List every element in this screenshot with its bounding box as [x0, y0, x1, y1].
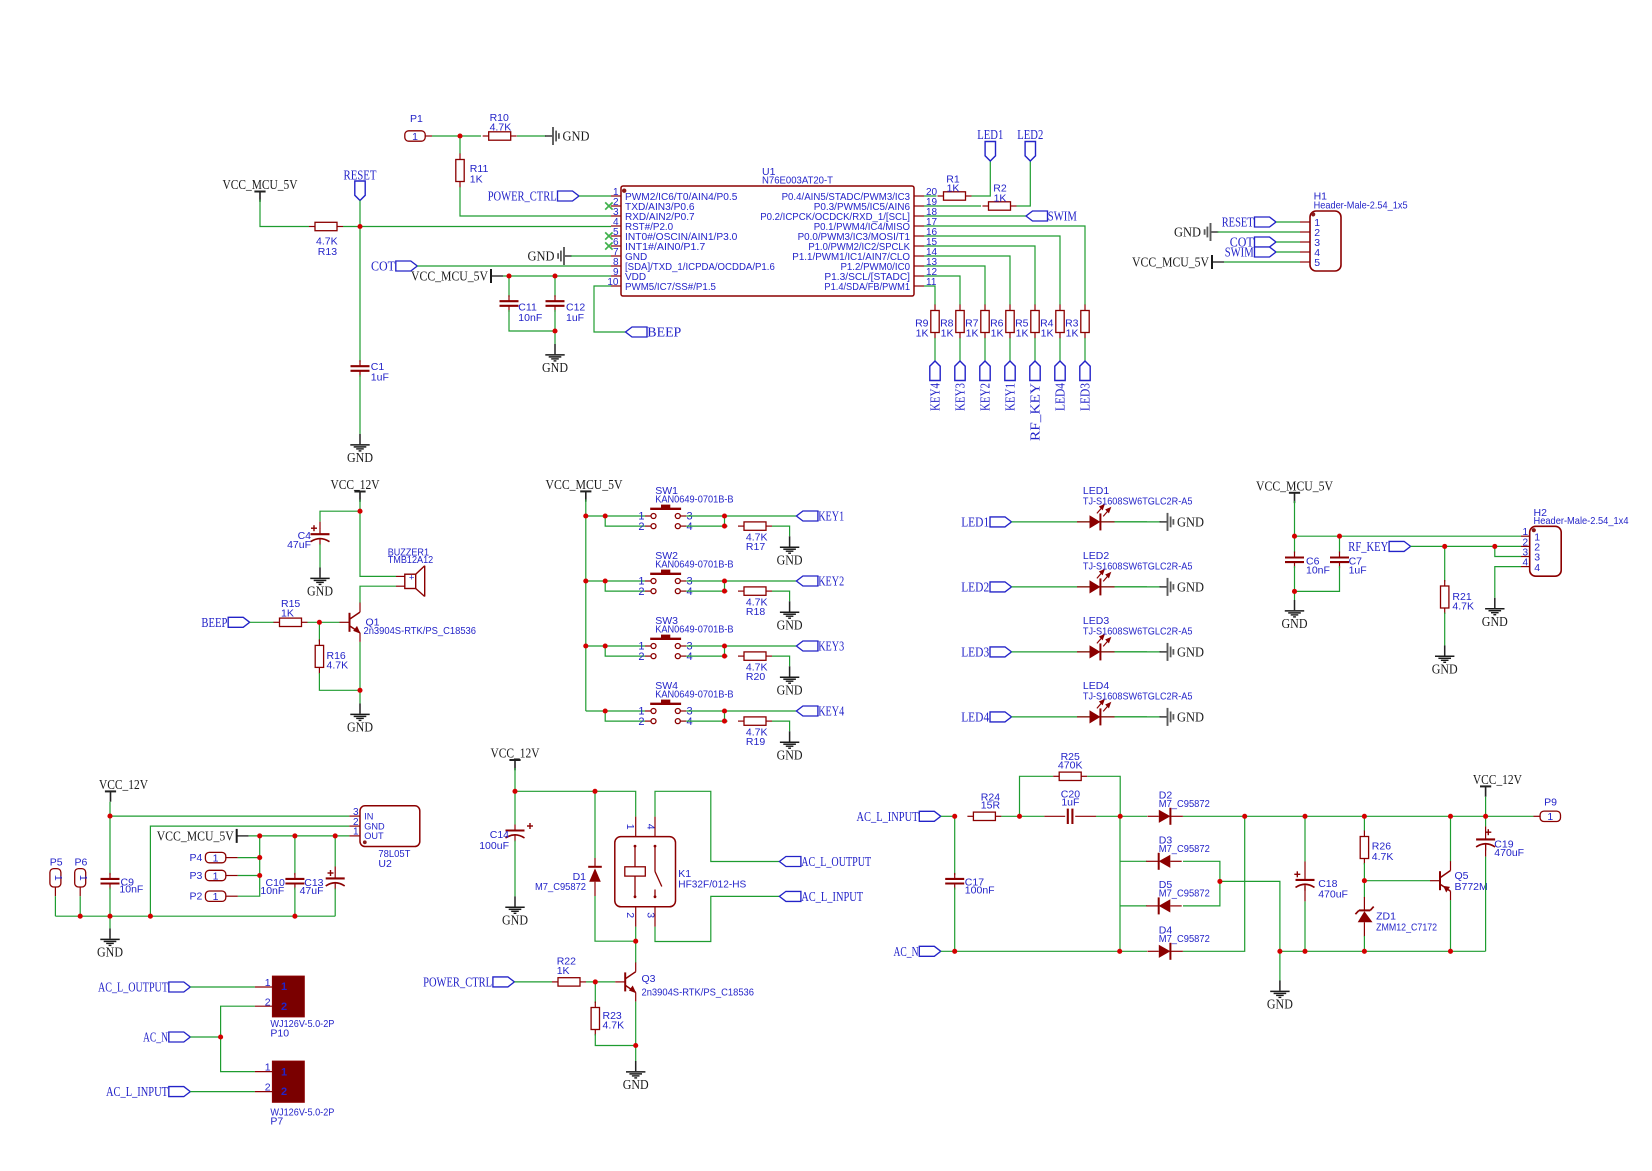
- svg-text:P5: P5: [50, 857, 63, 869]
- wire dropper node vertical: [1119, 816, 1121, 951]
- svg-text:AC_L_INPUT: AC_L_INPUT: [857, 810, 919, 825]
- svg-text:GND: GND: [1177, 516, 1204, 531]
- svg-text:GND: GND: [1177, 581, 1204, 596]
- svg-text:LED3: LED3: [1079, 383, 1094, 411]
- wire VCC_12V flag lead: [1485, 797, 1487, 817]
- wire C1 to GND: [359, 375, 361, 434]
- wire R21 to GND: [1444, 613, 1446, 646]
- wire to C11: [508, 276, 510, 297]
- svg-text:1: 1: [1547, 811, 1553, 823]
- net VCC_MCU_5V flag (H2): [1289, 493, 1300, 503]
- svg-text:GND: GND: [542, 361, 568, 376]
- svg-text:1: 1: [77, 875, 89, 881]
- svg-text:GND: GND: [1174, 226, 1201, 241]
- junction SW1 pin4: [722, 524, 727, 529]
- svg-text:KAN0649-0701B-B: KAN0649-0701B-B: [655, 688, 733, 700]
- svg-text:KEY3: KEY3: [954, 383, 969, 411]
- svg-text:1K: 1K: [1066, 328, 1079, 340]
- wire C7 bottom: [1295, 566, 1340, 591]
- wire C12 bottom: [554, 310, 556, 331]
- svg-text:1: 1: [52, 875, 64, 881]
- wire D4 cathode to +12V: [1183, 816, 1245, 951]
- wire anodes to GND row: [1220, 881, 1280, 951]
- wire to ZD1: [1363, 881, 1365, 898]
- U1 pin 3 (RXD/AIN2/P0.7): [611, 215, 621, 217]
- port AC_L_INPUT (supply): [919, 811, 941, 821]
- wire C14 to GND: [514, 841, 516, 897]
- U2 pin1 marker: [363, 840, 367, 844]
- junction SW1 pin2 branch: [603, 513, 608, 518]
- wire to GND: [554, 331, 556, 344]
- wire R18 to GND: [772, 591, 790, 601]
- svg-text:4.7K: 4.7K: [1372, 851, 1394, 863]
- wire pin19 to R2: [924, 205, 981, 207]
- svg-text:P10: P10: [270, 1027, 289, 1039]
- svg-text:AC_L_INPUT: AC_L_INPUT: [801, 890, 863, 905]
- port LED4: [990, 712, 1012, 722]
- header H2 body: [1530, 526, 1562, 576]
- svg-text:1: 1: [213, 870, 219, 882]
- wire AC_L_OUTPUT to P10.1: [190, 986, 255, 988]
- svg-text:KEY4: KEY4: [818, 705, 844, 720]
- ground below rail: [100, 929, 119, 946]
- svg-text:4: 4: [687, 586, 693, 598]
- svg-text:VCC_12V: VCC_12V: [99, 778, 148, 793]
- junction Q5 collector: [1448, 814, 1453, 819]
- svg-text:LED2: LED2: [961, 581, 989, 596]
- junction C18 top: [1302, 814, 1307, 819]
- wire Q1 emitter to GND: [359, 642, 361, 704]
- svg-text:4.7K: 4.7K: [327, 659, 349, 671]
- junction Q3 emitter/R23: [633, 1043, 638, 1048]
- svg-text:VCC_12V: VCC_12V: [491, 747, 540, 762]
- svg-text:1: 1: [213, 852, 219, 864]
- resistor R6 1K: [1006, 305, 1014, 339]
- svg-text:P4: P4: [190, 852, 203, 864]
- wire to SW1 pin1: [586, 515, 645, 517]
- H1 pin 2: [1300, 231, 1310, 233]
- wire R7 to port: [984, 338, 986, 361]
- capacitor C14 100uF (polarized): [506, 823, 534, 842]
- svg-text:R18: R18: [746, 606, 765, 618]
- wire R13 to U1 pin4 (RST): [343, 226, 611, 228]
- wire P6 to rail: [79, 896, 81, 916]
- U1 pin 15 (P1.0/PWM2/IC2/SPCLK): [914, 245, 924, 247]
- wire C18 bottom: [1304, 901, 1306, 951]
- port AC_L_OUTPUT flag: [169, 982, 191, 992]
- svg-text:KAN0649-0701B-B: KAN0649-0701B-B: [655, 493, 733, 505]
- wire to C13: [334, 836, 336, 867]
- wire to C4: [320, 511, 360, 522]
- relay K1 contact: [655, 846, 662, 897]
- port BEEP (top): [626, 327, 648, 337]
- svg-text:TJ-S1608SW6TGLC2R-A5: TJ-S1608SW6TGLC2R-A5: [1083, 561, 1193, 573]
- svg-text:AC_L_INPUT: AC_L_INPUT: [106, 1085, 168, 1100]
- transistor Q5 B772M (PNP): [1430, 861, 1451, 900]
- wire R4 to port: [1059, 338, 1061, 361]
- svg-text:BEEP: BEEP: [201, 616, 227, 631]
- svg-text:P3: P3: [190, 870, 203, 882]
- wire SW4 pins 3-4 link: [724, 711, 726, 721]
- junction H2 pin3 branch: [1492, 544, 1497, 549]
- port KEY3 (column): [955, 361, 965, 381]
- ground (bars) at H1.2: [1205, 223, 1219, 241]
- svg-text:+: +: [409, 573, 415, 584]
- svg-text:R17: R17: [746, 541, 765, 553]
- wire U1 pin12 to R8: [924, 276, 960, 305]
- junction R25 left: [1017, 814, 1022, 819]
- junction R22/R23: [593, 979, 598, 984]
- wire to C19: [1485, 816, 1487, 826]
- port LED2: [990, 582, 1012, 592]
- wire rail to GND: [109, 916, 111, 928]
- capacitor C13 47uF (polarized): [326, 870, 345, 889]
- wire SW3 pins 3-4 link: [724, 646, 726, 656]
- wire SW1 pin4: [686, 525, 727, 527]
- wire U1 pin16 to R4: [924, 236, 1060, 305]
- junction D1 top: [592, 789, 597, 794]
- net VCC_12V flag (regulator): [105, 791, 116, 801]
- svg-text:KAN0649-0701B-B: KAN0649-0701B-B: [655, 623, 733, 635]
- resistor R18 4.7K: [738, 587, 772, 595]
- svg-text:2: 2: [624, 912, 636, 918]
- port KEY1 (column): [1005, 361, 1015, 381]
- wire VCC_12V down: [359, 500, 361, 512]
- svg-text:GND: GND: [307, 585, 333, 600]
- junction VCC_12V out: [1483, 814, 1488, 819]
- H1 pin 1: [1300, 221, 1310, 223]
- net VCC_12V flag (supply out): [1480, 786, 1491, 796]
- wire R22 to Q3 base: [586, 981, 615, 983]
- port KEY4: [796, 706, 818, 716]
- svg-text:1K: 1K: [470, 173, 483, 185]
- svg-text:1: 1: [624, 824, 636, 830]
- ground below C14: [505, 896, 524, 913]
- svg-text:GND: GND: [97, 946, 123, 961]
- ground (bars) LED3: [1160, 643, 1174, 661]
- junction P4: [257, 855, 262, 860]
- wire VCC down (reg): [109, 802, 111, 816]
- capacitor C10 10nF: [285, 873, 304, 890]
- wire RF_KEY to H2 pin2: [1411, 545, 1521, 547]
- svg-text:R19: R19: [746, 736, 765, 748]
- svg-text:4: 4: [687, 716, 693, 728]
- port LED1 (top): [985, 142, 995, 162]
- wire to R26: [1363, 816, 1365, 831]
- junction SW3 pin3: [722, 643, 727, 648]
- resistor R3 1K: [1081, 305, 1089, 339]
- pin P4: [205, 852, 225, 862]
- wire POWER_CTRL to R22: [514, 981, 552, 983]
- capacitor C17 100nF: [945, 873, 964, 890]
- wire VCC_MCU_5V to U2 OUT: [249, 835, 350, 837]
- junction relay pin2/D1/Q3: [633, 939, 638, 944]
- wire to C18: [1304, 816, 1306, 861]
- wire C10 bottom: [294, 888, 296, 917]
- svg-text:4: 4: [687, 651, 693, 663]
- junction SW2 pin3: [722, 578, 727, 583]
- no-connect X mark: [605, 242, 612, 249]
- svg-text:10nF: 10nF: [119, 884, 143, 896]
- net VCC_12V flag (buzzer): [354, 492, 365, 502]
- svg-text:1K: 1K: [281, 607, 294, 619]
- wire node to D3: [1120, 860, 1147, 862]
- svg-text:GND: GND: [777, 749, 803, 764]
- ground (bars) LED1: [1160, 513, 1174, 531]
- U1 pin 4 (RST#/P2.0): [611, 225, 621, 227]
- svg-text:GND: GND: [777, 619, 803, 634]
- port KEY2: [796, 576, 818, 586]
- wire to C14: [514, 791, 516, 824]
- net VCC_MCU_5V at U1 pin9: [491, 269, 503, 283]
- svg-text:IN: IN: [364, 811, 373, 821]
- wire Q5 collector: [1450, 816, 1452, 861]
- U1 pin 20 (P0.4/AIN5/STADC/PWM3/IC3): [914, 195, 924, 197]
- wire SW1 pins 3-4 link: [724, 516, 726, 526]
- svg-text:GND: GND: [1267, 998, 1293, 1013]
- wire C20 to D2: [1096, 815, 1147, 817]
- U1 pin 10 (PWM5/IC7/SS#/P1.5): [611, 285, 621, 287]
- svg-text:10: 10: [607, 277, 619, 288]
- svg-text:AC_N: AC_N: [143, 1031, 168, 1046]
- wire SW3 pin3 to KEY3: [686, 645, 796, 647]
- port KEY1: [796, 511, 818, 521]
- ground below C12: [545, 344, 564, 361]
- svg-text:GND: GND: [1177, 711, 1204, 726]
- wire P3: [238, 875, 260, 877]
- junction C18 bottom: [1302, 949, 1307, 954]
- wire to C12: [554, 276, 556, 297]
- wire R25 to node: [1087, 776, 1120, 816]
- resistor R16: [315, 639, 323, 673]
- capacitor C6 10nF: [1285, 552, 1304, 569]
- wire LED1 to diode: [1012, 521, 1148, 523]
- wire R26 bottom: [1363, 863, 1365, 881]
- svg-text:TJ-S1608SW6TGLC2R-A5: TJ-S1608SW6TGLC2R-A5: [1083, 691, 1193, 703]
- svg-text:KEY1: KEY1: [1004, 383, 1019, 411]
- port AC_L_INPUT (relay): [779, 891, 801, 901]
- svg-text:RF_KEY: RF_KEY: [1348, 540, 1388, 555]
- ground (bars) at U1 pin7: [558, 247, 572, 265]
- wire to H2 pin1: [1295, 535, 1522, 537]
- diode D5 M7_C95872: [1146, 897, 1182, 914]
- svg-text:KEY2: KEY2: [979, 383, 994, 411]
- svg-text:Header-Male-2.54_1x5: Header-Male-2.54_1x5: [1314, 200, 1408, 212]
- svg-text:OUT: OUT: [364, 831, 384, 841]
- U1 pin 16 (P0.0/PWM3/IC3/MOSI/T1): [914, 235, 924, 237]
- wire relay pin3 to AC_L_INPUT: [655, 896, 779, 941]
- wire relay pin4 to AC_L_OUTPUT: [655, 791, 779, 861]
- wire COT to U1 pin8: [417, 265, 611, 267]
- svg-text:TJ-S1608SW6TGLC2R-A5: TJ-S1608SW6TGLC2R-A5: [1083, 496, 1193, 508]
- junction C6/C7 gnd: [1292, 589, 1297, 594]
- wire U1 pin17 to R3: [924, 226, 1085, 305]
- regulator U2 78L05T body: [360, 806, 420, 847]
- junction trunk SW2: [583, 578, 588, 583]
- wire AC_N: [190, 1036, 220, 1038]
- svg-text:GND: GND: [1282, 617, 1308, 632]
- wire AC_L_INPUT to P7.2: [190, 1091, 255, 1093]
- capacitor C4 47uF (polarized): [311, 525, 330, 545]
- junction C17 bottom: [952, 949, 957, 954]
- svg-text:100uF: 100uF: [479, 840, 509, 852]
- U1 pin 12 (P1.3/SCL/[STADC]): [914, 275, 924, 277]
- ground below C6/C7: [1285, 600, 1304, 617]
- wire R15 to Q1 base: [308, 621, 340, 623]
- capacitor C18 470uF (polarized): [1294, 871, 1314, 891]
- capacitor C9 10nF: [101, 873, 120, 890]
- svg-text:470uF: 470uF: [1494, 847, 1524, 859]
- resistor R10: [483, 132, 517, 140]
- svg-text:1K: 1K: [966, 328, 979, 340]
- port POWER_CTRL: [558, 191, 580, 201]
- ground (bars) LED4: [1160, 708, 1174, 726]
- switch SW3 KAN0649-0701B-B: [650, 635, 681, 659]
- wire to C17: [954, 816, 956, 875]
- svg-text:GND: GND: [1432, 663, 1458, 678]
- resistor R22: [552, 978, 586, 986]
- no-connect X mark: [605, 232, 612, 239]
- wire U1 pin15 to R5: [924, 246, 1035, 305]
- junction C10/rail: [292, 914, 297, 919]
- junction ZD1 bottom: [1362, 949, 1367, 954]
- svg-text:10nF: 10nF: [260, 885, 284, 897]
- svg-text:4.7K: 4.7K: [1452, 600, 1474, 612]
- resistor R8 1K: [956, 305, 964, 339]
- svg-text:KEY3: KEY3: [818, 640, 844, 655]
- U1 pin 18 (P0.2/ICPCK/OCDCK/RXD_1/[SCL]): [914, 215, 924, 217]
- svg-text:4: 4: [687, 521, 693, 533]
- port KEY2 (column): [980, 361, 990, 381]
- svg-text:2: 2: [281, 1086, 287, 1098]
- junction dropper node bottom: [1117, 949, 1122, 954]
- pin P5: [50, 869, 61, 887]
- diode D4 M7_C95872: [1147, 943, 1183, 960]
- svg-text:1K: 1K: [941, 328, 954, 340]
- wire AC_N to P7.1: [221, 1037, 255, 1072]
- svg-text:1uF: 1uF: [1061, 796, 1079, 808]
- wire D1 anode to Q3 node: [595, 896, 636, 941]
- wire ground rail: [55, 915, 335, 917]
- U1 pin 1 (PWM2/IC6/T0/AIN4/P0.5): [611, 195, 621, 197]
- svg-text:AC_N: AC_N: [894, 945, 919, 960]
- wire P1 to R10: [432, 135, 481, 137]
- wire GND to H1.2: [1218, 231, 1301, 233]
- U1 pin 13 (P1.2/PWM0/IC0): [914, 265, 924, 267]
- wire R5 to port: [1034, 338, 1036, 361]
- junction SW3 pin4: [722, 654, 727, 659]
- svg-text:PWM5/IC7/SS#/P1.5: PWM5/IC7/SS#/P1.5: [625, 282, 716, 293]
- svg-text:LED1: LED1: [961, 516, 989, 531]
- junction R21 top: [1442, 544, 1447, 549]
- svg-text:2: 2: [638, 521, 644, 533]
- wire to SW3 pin1: [586, 645, 645, 647]
- resistor R23: [591, 1002, 599, 1036]
- wire to GND (C6): [1294, 591, 1296, 600]
- svg-text:4.7K: 4.7K: [603, 1019, 625, 1031]
- wire to C6: [1294, 536, 1296, 552]
- svg-text:1uF: 1uF: [371, 371, 389, 383]
- svg-text:GND: GND: [347, 451, 373, 466]
- svg-text:GND: GND: [1177, 646, 1204, 661]
- transistor Q1 2n3904S (NPN): [340, 603, 361, 642]
- svg-text:VCC_12V: VCC_12V: [331, 478, 380, 493]
- wire GND to U1 pin7: [571, 255, 611, 257]
- svg-text:2: 2: [281, 1001, 287, 1013]
- svg-text:R20: R20: [746, 671, 765, 683]
- svg-text:GND: GND: [1482, 615, 1508, 630]
- wire R3 to port: [1084, 338, 1086, 361]
- svg-text:4: 4: [645, 824, 657, 830]
- junction C11 top: [506, 273, 511, 278]
- wire R17 to GND: [772, 526, 790, 536]
- port RF_KEY: [1389, 541, 1411, 551]
- port RESET at H1.1: [1255, 217, 1277, 227]
- wire D1 top: [594, 791, 596, 858]
- svg-text:470uF: 470uF: [1318, 889, 1348, 901]
- U1 pin1 marker: [622, 189, 626, 193]
- junction R26/ZD1/Q5 base: [1362, 878, 1367, 883]
- resistor R11: [456, 154, 464, 188]
- junction SW4 pin3: [722, 708, 727, 713]
- wire to C9: [109, 816, 111, 875]
- junction Q1 emitter/R16: [357, 688, 362, 693]
- junction VCC_12V/C9: [107, 814, 112, 819]
- junction C9/rail: [107, 914, 112, 919]
- resistor R13: [309, 222, 343, 230]
- wire R23 bottom: [595, 1034, 635, 1046]
- svg-text:Header-Male-2.54_1x4: Header-Male-2.54_1x4: [1534, 515, 1629, 527]
- wire LED4 to diode: [1012, 716, 1148, 718]
- svg-text:RESET: RESET: [1222, 216, 1254, 231]
- wire to Q5 base: [1364, 880, 1430, 882]
- wire GND row: [1280, 950, 1486, 952]
- wire R24 to C20: [1001, 815, 1044, 817]
- H1 pin 4: [1300, 251, 1310, 253]
- svg-text:VCC_MCU_5V: VCC_MCU_5V: [546, 478, 623, 493]
- junction C17 top: [952, 814, 957, 819]
- wire VCC trunk (switches): [585, 499, 587, 711]
- wire Q3 collector: [635, 941, 637, 962]
- H1 pin 3: [1300, 241, 1310, 243]
- junction C12 top: [552, 273, 557, 278]
- wire LED4 cathode to GND: [1115, 716, 1161, 718]
- junction SW3 pin2 branch: [603, 643, 608, 648]
- wire SW2 pin3 to KEY2: [686, 580, 796, 582]
- port LED1: [990, 517, 1012, 527]
- junction VCC/C4/buzzer: [357, 509, 362, 514]
- wire LED2 cathode to GND: [1115, 586, 1161, 588]
- wire C6 bottom: [1294, 566, 1296, 591]
- junction P3: [257, 873, 262, 878]
- svg-text:GND: GND: [347, 721, 373, 736]
- wire R20 to GND: [772, 656, 790, 666]
- svg-text:GND: GND: [777, 554, 803, 569]
- wire to H2 pin3: [1495, 546, 1521, 556]
- svg-text:HF32F/012-HS: HF32F/012-HS: [678, 879, 746, 891]
- svg-text:100nF: 100nF: [965, 884, 995, 896]
- svg-text:VCC_MCU_5V: VCC_MCU_5V: [223, 178, 298, 193]
- port LED3: [990, 647, 1012, 657]
- svg-text:VCC_MCU_5V: VCC_MCU_5V: [157, 830, 234, 845]
- svg-text:5: 5: [1314, 257, 1320, 269]
- svg-text:ZMM12_C7172: ZMM12_C7172: [1376, 921, 1437, 933]
- buzzer BUZZER1 TMB12A12: [405, 566, 425, 597]
- ground below C4: [310, 568, 329, 585]
- no-connect X mark: [605, 202, 612, 209]
- wire VCC to U1 pin9: [503, 275, 611, 277]
- wire relay pin2 down: [635, 927, 637, 941]
